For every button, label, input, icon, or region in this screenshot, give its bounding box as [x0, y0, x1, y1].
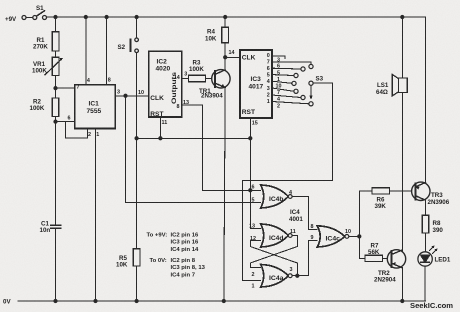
- watermark SeekIC.com: [410, 301, 453, 310]
- wire IC3 pin15 RST down to IC4d pin13: [250, 118, 260, 228]
- wire LS1 to TR2 collector: [401, 92, 403, 251]
- wire S2 down to RST bus and R5: [136, 53, 138, 249]
- wire RST bus: [137, 137, 251, 139]
- wire IC2 pin13 (Q8) to IC4b pin6: [182, 105, 261, 190]
- wire rail to R1: [55, 17, 57, 32]
- node junction R4-IC3CLK: [224, 56, 227, 59]
- resistor R1: [52, 32, 59, 51]
- node junction S2-RST bus: [135, 137, 138, 140]
- wire IC3 Q5 pin1 to contact: [272, 74, 294, 77]
- wire S3 pole to IC4a pin1: [242, 83, 332, 280]
- wire R7 to TR2 base: [383, 257, 392, 259]
- node junction rail-pin4: [84, 15, 87, 18]
- wire rail to R4: [224, 17, 226, 27]
- wire IC3 Q2 pin4 to contact: [272, 95, 301, 98]
- node junction C1-0V: [54, 299, 57, 302]
- wire R5 to 0V: [136, 266, 138, 301]
- wire right rail to TR3 emitter: [424, 17, 426, 183]
- wire junction up to R6: [359, 191, 372, 237]
- wire R8 to LED1: [424, 233, 426, 252]
- paper noise overlay: [0, 0, 1, 1]
- node junction RST bus - IC2 pin11: [159, 137, 162, 140]
- wire IC1 pin4 to rail: [85, 17, 87, 85]
- wire TR2 emitter to 0V: [401, 268, 403, 301]
- capacitor C1: [51, 224, 61, 226]
- resistor R7: [365, 255, 383, 261]
- resistor R5: [133, 249, 140, 266]
- IC4 4001 label: [289, 209, 303, 223]
- wire R3 to TR1 base: [206, 77, 215, 79]
- node junction RST bus - IC3 pin15: [249, 137, 252, 140]
- node junction rail-R4: [224, 15, 227, 18]
- wire VR1 to junction: [55, 75, 57, 98]
- wire IC1 pin1 to 0V: [95, 129, 97, 302]
- wire IC4d out to IC4a pin2 (cross couple): [250, 236, 297, 268]
- wire R1-VR1: [55, 51, 57, 57]
- potentiometer VR1: [52, 57, 59, 75]
- NOR gate IC4a: [261, 265, 292, 288]
- node junction rail-R1: [54, 15, 57, 18]
- wire IC1 pin3 to IC2 CLK pin10: [115, 95, 149, 97]
- node junction rail-LS1: [401, 15, 404, 18]
- wire to IC3 CLK pin14: [225, 56, 240, 58]
- transistor TR3: [412, 182, 430, 200]
- wire IC3 Q1 pin2 to contact: [272, 102, 309, 104]
- node junction pin3 wire - oscillator tap: [124, 94, 127, 97]
- node junction TR2emitter-0V: [401, 299, 404, 302]
- wire IC4c out to R6/R7 junction: [349, 235, 360, 237]
- wire rail down to LS1: [401, 17, 403, 78]
- wire junction to IC1 pin 6: [56, 121, 75, 123]
- wire +9V top rail: [47, 16, 426, 18]
- wire C1 to 0V rail: [55, 228, 57, 301]
- node supply note text: [147, 233, 206, 279]
- node junction R5-0V: [135, 299, 138, 302]
- NOR gate IC4b: [261, 185, 292, 208]
- node junction RSTline-IC4b6 line: [249, 189, 252, 192]
- wire R4 to TR1 collector and IC3 CLK: [224, 43, 226, 71]
- node junction rail-S2: [135, 15, 138, 18]
- node +9V label: [5, 16, 17, 23]
- NOR gate IC4d: [261, 224, 292, 247]
- wire IC3 Q3 pin7 to contact: [272, 88, 294, 91]
- resistor R4: [222, 27, 229, 43]
- wire IC3 Q0 stub pin3: [272, 56, 285, 59]
- wire IC3 Q7 pin6 to contact: [272, 62, 311, 65]
- switch S1: [22, 11, 47, 20]
- resistor R3: [189, 75, 206, 81]
- S3 wiper arrow: [310, 86, 312, 96]
- wire IC4a out to IC4d pin12 (cross couple): [250, 241, 297, 276]
- wire LED1 to 0V: [424, 266, 426, 301]
- IC3 output pins Q0..Q1 labels: [267, 53, 282, 109]
- op-amp IC1 7555: [75, 85, 115, 129]
- wire pin6 loop to pin2: [65, 122, 87, 138]
- node 0V label: [3, 299, 11, 306]
- wire rail to S2: [136, 17, 138, 38]
- wire TR1 emitter to 0V: [224, 88, 225, 301]
- counter IC2 4020: [149, 51, 182, 117]
- node junction VR1-R2-pin7: [54, 87, 57, 90]
- resistor R2: [52, 98, 59, 117]
- node junction IC4c out: [358, 235, 361, 238]
- node junction pin1-0V: [94, 299, 97, 302]
- node junction TR1emitter-0V: [222, 299, 225, 302]
- switch S3 rotary contacts: [292, 64, 313, 106]
- node junction R2-pin6-C1: [54, 120, 57, 123]
- wire R6 to TR3 base: [390, 190, 416, 192]
- wire IC2 pin11 to RST bus: [159, 117, 161, 138]
- resistor R8: [422, 215, 429, 233]
- wire TR3 collector to R8: [424, 200, 426, 215]
- wire junction to IC1 pin 7: [56, 87, 75, 89]
- loudspeaker LS1: [392, 74, 407, 96]
- wire IC1 pin8 to rail: [106, 17, 108, 85]
- counter IC3 4017: [240, 50, 272, 118]
- wire junction down to R7: [359, 236, 365, 258]
- wire IC4b out to IC4c pin8: [292, 197, 317, 230]
- resistor R6: [372, 188, 390, 194]
- node junction cross couple - IC4a out: [296, 274, 299, 277]
- NOR gate IC4c: [317, 226, 349, 247]
- wire IC3 Q4 pin10 to contact: [272, 81, 292, 83]
- transistor TR1: [212, 70, 230, 88]
- node junction rail-pin8: [105, 15, 108, 18]
- wire oscillator tap down to IC4b pin5: [126, 96, 261, 203]
- wire IC4a out to IC4c pin9: [292, 241, 317, 276]
- LED LED1: [418, 246, 438, 267]
- transistor TR2: [387, 250, 405, 268]
- wire R2 to junction pin6: [55, 117, 57, 226]
- switch S2: [131, 38, 139, 53]
- wire IC3 Q6 pin5 to contact: [272, 67, 301, 70]
- wire IC2 pin3 (Q14) to R3: [182, 77, 189, 79]
- wire 0V bottom rail: [18, 300, 425, 302]
